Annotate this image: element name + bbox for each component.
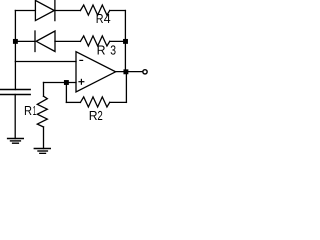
capacitor C1 top plate — [1, 89, 31, 91]
node junction dot R3 right rail — [123, 39, 128, 44]
wire capacitor to ground — [14, 95, 16, 139]
resistor R3 — [80, 36, 109, 46]
wire right rail lower — [125, 72, 127, 103]
svg-text:2: 2 — [97, 108, 102, 123]
wire node to D2 cathode — [15, 40, 35, 42]
wire inverting input — [15, 61, 76, 63]
svg-text:R: R — [89, 108, 98, 123]
diode D1 — [35, 0, 55, 20]
op-amp U1 — [76, 52, 116, 92]
wire R3 to right rail — [110, 40, 126, 42]
resistor R4 — [80, 5, 109, 15]
node junction dot output — [123, 69, 128, 74]
svg-text:3: 3 — [110, 42, 116, 57]
svg-text:R: R — [24, 103, 32, 118]
op-amp minus pin label — [80, 59, 83, 61]
wire top row left — [15, 10, 35, 12]
wire down to R1 — [43, 83, 45, 97]
resistor R2 — [80, 97, 109, 107]
label R1 — [24, 103, 36, 118]
svg-text:R: R — [97, 42, 106, 57]
wire D1 cathode to R4 — [55, 10, 81, 12]
ground under R1 — [34, 149, 50, 154]
label R2 — [89, 108, 103, 123]
ground under capacitor — [8, 139, 24, 144]
node junction dot plus input — [64, 80, 69, 85]
node junction dot left rail — [13, 39, 18, 44]
label R3 — [97, 42, 117, 57]
diode D2 — [35, 31, 55, 52]
op-amp plus pin label — [79, 79, 84, 84]
capacitor C1 bottom plate — [1, 94, 31, 96]
wire to R2 — [66, 101, 80, 103]
wire R1 to ground — [43, 127, 45, 149]
wire D2 anode to R3 — [55, 40, 80, 42]
svg-text:4: 4 — [104, 11, 111, 26]
wire right rail upper — [124, 11, 126, 72]
wire left rail — [14, 11, 16, 90]
svg-text:R: R — [96, 11, 104, 26]
wire non-inverting input — [44, 82, 77, 84]
wire down from plus node — [65, 83, 67, 103]
wire R4 to right rail — [110, 10, 126, 12]
output terminal — [143, 70, 147, 74]
label R4 — [96, 11, 111, 26]
resistor R1 — [37, 96, 47, 127]
wire R2 to right rail — [110, 101, 127, 103]
svg-text:1: 1 — [33, 103, 36, 118]
wire op-amp output — [116, 71, 143, 73]
